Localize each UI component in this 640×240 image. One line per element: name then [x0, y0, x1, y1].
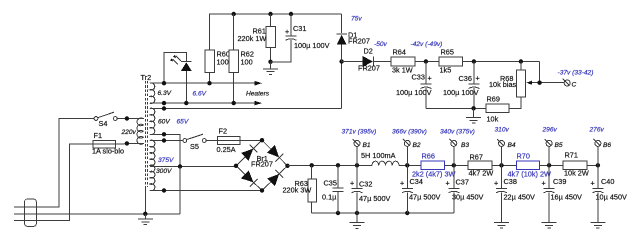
resistor R61: [270, 14, 272, 27]
wire earth line from plug: [14, 213, 180, 215]
wire neutral from plug to F1: [14, 144, 93, 220]
node heater1 LED branch: [162, 81, 166, 85]
test point B5: [548, 146, 550, 165]
svg-text:3k 1W: 3k 1W: [392, 66, 413, 75]
node HV top terminal: [162, 138, 166, 142]
capacitor C31: [290, 14, 292, 35]
fuse F2: [218, 136, 241, 144]
svg-text:0.1µ: 0.1µ: [322, 193, 337, 202]
node bridge right: [285, 164, 289, 168]
svg-text:+: +: [428, 74, 432, 83]
node heater2 LED anode: [184, 101, 188, 105]
node wiper junction: [537, 81, 541, 85]
wire 300V tap line to bridge left: [150, 166, 236, 168]
svg-text:220k 1W: 220k 1W: [238, 34, 267, 43]
svg-text:S5: S5: [190, 142, 199, 151]
node bridge bottom: [260, 188, 264, 192]
wire earth drop from 300V tap: [179, 167, 181, 214]
node C39/B5: [547, 163, 551, 167]
ground below C38: [494, 223, 509, 229]
resistor R66 (blue): [421, 161, 445, 170]
wire R62 bottom stub: [233, 72, 235, 103]
wire heater line 1: [150, 82, 257, 84]
test point B4: [501, 146, 503, 165]
node heater1 R60: [207, 81, 211, 85]
bridge diode upper-right: [267, 145, 279, 157]
svg-text:296v: 296v: [542, 127, 558, 134]
svg-text:FR207: FR207: [348, 37, 370, 46]
svg-text:-42v (-49v): -42v (-49v): [411, 41, 443, 48]
svg-text:C36: C36: [459, 74, 472, 83]
svg-text:276v: 276v: [589, 127, 605, 134]
capacitor C33: [425, 62, 427, 84]
ground below C40: [590, 223, 605, 229]
svg-text:5H 100mA: 5H 100mA: [361, 151, 396, 160]
wire heater line 2: [150, 102, 257, 104]
svg-text:+: +: [476, 74, 480, 83]
svg-text:R66: R66: [422, 152, 435, 161]
svg-text:1A slo-blo: 1A slo-blo: [92, 147, 124, 156]
ground bias supply: [466, 108, 481, 123]
node C34/B2: [405, 163, 409, 167]
svg-text:B5: B5: [555, 142, 563, 149]
svg-text:+: +: [446, 179, 450, 188]
switch S4: [94, 117, 98, 121]
svg-text:47µ 500V: 47µ 500V: [359, 194, 391, 203]
node C37/B3: [452, 163, 456, 167]
bridge Br1 frame: [236, 140, 288, 190]
svg-text:375V: 375V: [158, 157, 174, 164]
node C40/B6: [596, 163, 600, 167]
node 60V bottom terminal: [162, 132, 166, 136]
svg-text:Tr2: Tr2: [141, 73, 152, 82]
node primary top terminal: [125, 116, 129, 120]
wire output to terminal C: [540, 62, 565, 83]
svg-text:R71: R71: [565, 151, 578, 160]
ground below C32: [350, 213, 365, 228]
svg-text:10k 2W: 10k 2W: [564, 169, 589, 178]
node heater2 winding terminal: [162, 101, 166, 105]
resistor R62: [229, 50, 239, 72]
svg-text:1k5: 1k5: [440, 66, 452, 75]
potentiometer R68 10k bias: [516, 70, 525, 97]
svg-text:+: +: [400, 179, 404, 188]
svg-text:+: +: [285, 27, 289, 36]
svg-text:4k7 2W: 4k7 2W: [469, 169, 494, 178]
capacitor C37: [453, 165, 455, 188]
svg-text:R69: R69: [487, 95, 500, 104]
svg-text:+: +: [494, 179, 498, 188]
svg-text:R70: R70: [517, 152, 530, 161]
choke 5H 100mA: [372, 161, 399, 165]
node C32/B1: [355, 163, 359, 167]
node C31 top: [289, 12, 293, 16]
arrow heater line 2: [255, 101, 263, 106]
svg-text:F1: F1: [94, 131, 103, 140]
node chassis ground: [143, 212, 147, 216]
wire C31 bottom to ground node: [271, 40, 292, 62]
node R62 top: [232, 12, 236, 16]
resistor R64: [391, 57, 415, 66]
ground chassis: [138, 214, 153, 225]
svg-text:2k2 (4k7) 3W: 2k2 (4k7) 3W: [412, 169, 456, 178]
transformer 220V primary winding: [137, 118, 143, 144]
wire HT bottom rail: [312, 212, 454, 214]
LED pilot lamp: [164, 52, 186, 83]
svg-text:+: +: [350, 179, 354, 188]
node primary bottom terminal: [125, 141, 129, 145]
svg-text:10k bias: 10k bias: [489, 80, 517, 89]
svg-text:FR207: FR207: [251, 159, 273, 168]
transformer core: [145, 81, 147, 187]
transformer 6.3V secondary winding: [150, 83, 155, 103]
diode D1 FR207: [341, 45, 343, 62]
node R64/R65/C33: [424, 59, 428, 63]
bridge diode lower-right: [267, 174, 279, 186]
svg-text:C31: C31: [293, 24, 306, 33]
svg-text:R64: R64: [393, 48, 406, 57]
capacitor C35: [337, 165, 339, 188]
svg-text:C33: C33: [412, 73, 425, 82]
wire S4 to primary top: [117, 118, 143, 120]
wire HV top terminal to switch S5: [150, 140, 183, 142]
node R68 top: [519, 59, 523, 63]
svg-text:C35: C35: [324, 179, 337, 188]
svg-text:22µ 450V: 22µ 450V: [504, 193, 536, 202]
svg-text:16µ 450V: 16µ 450V: [551, 193, 583, 202]
wire 60V winding top terminal long line to bias rectifier: [150, 108, 342, 110]
node C34 bottom: [405, 211, 409, 215]
node R61/C31 ground junction: [268, 60, 272, 64]
svg-text:100: 100: [217, 58, 229, 67]
node C35 top: [336, 163, 340, 167]
svg-text:+: +: [542, 179, 546, 188]
svg-text:C34: C34: [410, 177, 423, 186]
svg-text:C32: C32: [359, 180, 372, 189]
fuse F1: [93, 140, 116, 148]
svg-text:65V: 65V: [177, 119, 189, 126]
resistor R60: [205, 50, 215, 72]
svg-text:0.25A: 0.25A: [217, 145, 236, 154]
svg-text:B3: B3: [461, 142, 469, 149]
svg-text:Heaters: Heaters: [246, 91, 270, 98]
capacitor C34: [406, 165, 408, 188]
svg-text:F2: F2: [219, 127, 228, 136]
node D1/D2 anode junction: [339, 59, 343, 63]
node C32 bottom ground: [355, 211, 359, 215]
svg-text:340v (375v): 340v (375v): [440, 129, 475, 136]
svg-text:B4: B4: [508, 142, 516, 149]
svg-text:10µ 450V: 10µ 450V: [596, 193, 628, 202]
wire R61 bottom stub: [270, 48, 272, 62]
resistor R65: [439, 57, 463, 66]
node C36 top: [472, 59, 476, 63]
capacitor C32: [356, 165, 358, 188]
test point B1: [356, 146, 358, 165]
node C35 bottom: [336, 211, 340, 215]
capacitor C38: [501, 165, 503, 188]
wire R64 to R65: [415, 61, 439, 63]
LED arrows: [173, 56, 181, 65]
svg-text:75v: 75v: [351, 16, 362, 23]
switch S5: [183, 139, 187, 143]
svg-text:B6: B6: [603, 142, 611, 149]
resistor R67: [468, 161, 492, 170]
mains plug: [25, 199, 37, 226]
resistor R69: [486, 104, 509, 112]
resistor R70 (blue): [516, 161, 539, 170]
node C38/B4: [499, 163, 503, 167]
svg-text:220k 3W: 220k 3W: [283, 186, 312, 195]
wire bias bottom rail: [426, 107, 486, 109]
R68 wiper arrow: [530, 82, 540, 84]
svg-text:-37v (33-42): -37v (33-42): [558, 70, 594, 77]
capacitor C40: [597, 165, 599, 188]
svg-text:100: 100: [241, 58, 253, 67]
wire S5 to F2: [206, 140, 217, 142]
wire live from plug to S4: [14, 119, 94, 208]
node bridge top: [260, 138, 264, 142]
svg-text:C39: C39: [553, 177, 566, 186]
wire F2 to bridge top: [240, 140, 262, 142]
test point B2: [406, 146, 408, 165]
capacitor C36: [473, 62, 475, 84]
svg-text:310v: 310v: [495, 127, 510, 134]
wire F1 to primary bottom: [116, 143, 144, 144]
resistor R63: [311, 165, 313, 179]
transformer 60V secondary winding: [150, 108, 155, 134]
diode D2 FR207: [342, 61, 363, 63]
svg-text:-50v: -50v: [374, 41, 388, 48]
transformer HV secondary winding 375V/300V: [150, 140, 155, 191]
svg-text:30µ 450V: 30µ 450V: [452, 193, 484, 202]
node bias ground: [471, 106, 475, 110]
bridge diode lower-left: [241, 171, 253, 183]
svg-text:C37: C37: [456, 178, 469, 187]
test point B6: [597, 146, 599, 165]
wire R69 to R68 bottom: [509, 97, 521, 108]
svg-text:R67: R67: [470, 153, 483, 162]
wire riser from 60V line to diode node: [341, 62, 343, 109]
svg-text:B2: B2: [413, 142, 421, 149]
svg-text:100µ 100V: 100µ 100V: [294, 41, 330, 50]
svg-text:D2: D2: [364, 47, 373, 56]
wire 60V winding bottom terminal to 300V tap: [150, 134, 180, 166]
bridge diode upper-left: [241, 149, 253, 161]
wire HV bottom terminal to bridge bottom: [150, 190, 262, 192]
node bridge left: [234, 164, 238, 168]
node heater2 R62: [232, 101, 236, 105]
svg-text:366v (390v): 366v (390v): [392, 129, 427, 136]
terminal C: [564, 80, 570, 86]
svg-text:6.6V: 6.6V: [193, 91, 207, 98]
svg-text:10k: 10k: [487, 115, 499, 124]
svg-text:47µ 500V: 47µ 500V: [409, 193, 441, 202]
svg-text:371v (395v): 371v (395v): [342, 129, 377, 136]
svg-text:S4: S4: [99, 119, 108, 128]
svg-text:C38: C38: [504, 177, 517, 186]
wire HT rail after choke: [399, 164, 598, 166]
ground below R61/C31: [263, 62, 278, 75]
svg-text:R65: R65: [441, 48, 454, 57]
arrow heater line 1: [255, 81, 263, 86]
node 60V top terminal: [162, 106, 166, 110]
svg-text:FR207: FR207: [358, 64, 380, 73]
node HV bottom terminal: [162, 188, 166, 192]
svg-text:+: +: [591, 179, 595, 188]
resistor R71: [563, 161, 587, 170]
wire top elevation rail: [210, 14, 342, 50]
svg-text:C40: C40: [601, 177, 614, 186]
wire R62 top stub: [233, 14, 235, 50]
wire R60 bottom stub: [209, 72, 211, 83]
wire HT rail bridge to choke: [288, 164, 373, 166]
node R63 top: [310, 163, 314, 167]
capacitor C39: [548, 165, 550, 188]
node R61 top: [268, 12, 272, 16]
svg-text:C: C: [572, 82, 577, 89]
test point B3: [453, 146, 455, 165]
wire R65 to R68 top and output corner: [463, 61, 540, 63]
svg-text:220v: 220v: [121, 129, 137, 136]
svg-text:300V: 300V: [156, 168, 172, 175]
svg-text:6.3V: 6.3V: [158, 90, 172, 97]
ground below C39: [542, 223, 557, 229]
svg-text:60V: 60V: [158, 119, 170, 126]
svg-text:B1: B1: [363, 142, 371, 149]
svg-text:100µ 100V: 100µ 100V: [443, 88, 479, 97]
svg-text:4k7 (10k) 2W: 4k7 (10k) 2W: [508, 169, 552, 178]
node 300V tap earth branch: [178, 164, 182, 168]
